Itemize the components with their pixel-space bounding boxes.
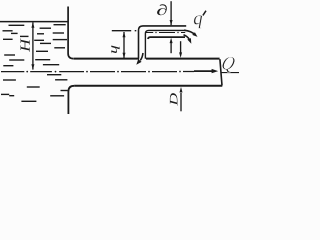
- water surface line: [0, 21, 68, 23]
- dimension h: top reference tick (dash-dot): [112, 30, 137, 32]
- pipe outlet end line: [220, 59, 222, 85]
- tank right wall with rounded entrance corner: [68, 7, 73, 59]
- dimension d: upper arrowhead: [170, 20, 173, 25]
- tube centerline (dash-dot): [146, 32, 185, 34]
- dimension h: bottom arrowhead: [123, 53, 126, 58]
- dimension D: lower line below pipe: [180, 93, 182, 111]
- label H (rotated): [21, 38, 30, 52]
- pipe top wall (right of riser hole): [146, 58, 220, 60]
- tube bottom wall (line C) with small left curl: [148, 37, 185, 39]
- water hatching in tank: [1, 25, 68, 102]
- pipe bottom wall left corner down: [68, 86, 74, 114]
- dimension h: top arrowhead: [123, 32, 126, 37]
- label Q: [221, 57, 236, 73]
- dimension d: lower tail line: [170, 42, 172, 53]
- dimension D: lower arrowhead pointing up to pipe bottom wall: [180, 87, 183, 93]
- riser left wall V1 bending into tube top wall (line A): [139, 26, 187, 59]
- label h (rotated): [111, 46, 119, 54]
- thin continuation line under Q: [222, 72, 240, 74]
- dimension D: upper line above pipe: [180, 41, 182, 53]
- dimension D: upper arrowhead pointing down to pipe top wall: [179, 52, 182, 58]
- pipe centerline (dash-dot): [1, 71, 194, 73]
- dimension h: vertical line: [123, 32, 125, 58]
- dimension H: vertical line: [32, 22, 34, 69]
- pipe bottom wall: [74, 85, 222, 87]
- label q prime: [194, 15, 202, 28]
- dimension d: lower arrowhead: [170, 38, 173, 43]
- jet arrow 1 (upper, curving down-right): [184, 30, 195, 35]
- label d: [157, 4, 167, 15]
- dimension H: bottom arrowhead: [31, 64, 34, 70]
- riser right wall V2 bending into tube inner line (line B): [145, 30, 186, 58]
- dimension d: upper vertical line: [170, 1, 172, 25]
- flow arrow Q on centerline: [194, 70, 213, 72]
- pipe top wall (left of riser hole): [74, 58, 140, 60]
- jet arrow 2 (lower, curving down): [184, 35, 190, 40]
- dimension H: top arrowhead: [31, 22, 34, 28]
- label D (rotated): [170, 93, 178, 106]
- flow arrow through wall hole into pipe: [140, 53, 143, 60]
